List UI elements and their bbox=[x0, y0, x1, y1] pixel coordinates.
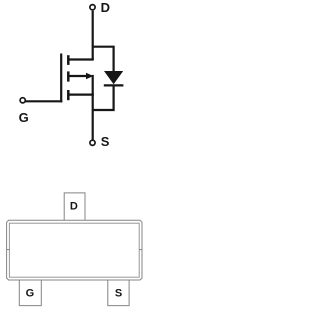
svg-text:S: S bbox=[115, 287, 122, 299]
svg-text:D: D bbox=[70, 201, 78, 213]
package body outer outline bbox=[7, 220, 142, 280]
svg-text:S: S bbox=[101, 134, 110, 149]
pin box G bbox=[19, 280, 41, 306]
package parting tick right bbox=[139, 249, 142, 251]
wire source vertical bbox=[92, 75, 94, 140]
body diode D1 bbox=[104, 71, 124, 85]
svg-text:G: G bbox=[26, 288, 35, 300]
package body inner outline bbox=[9, 223, 139, 277]
package parting tick left bbox=[7, 249, 10, 251]
wire drain stub bbox=[68, 58, 94, 60]
transistor Q1 body stub with arrow bbox=[68, 73, 93, 80]
wire drain vertical bbox=[92, 11, 94, 60]
transistor Q1 channel middle segment bbox=[67, 71, 70, 81]
wire diode branch bottom bbox=[93, 85, 114, 110]
transistor Q1 channel top segment bbox=[67, 55, 70, 65]
svg-text:D: D bbox=[101, 0, 110, 15]
terminal G bbox=[20, 98, 25, 103]
transistor Q1 gate line bbox=[60, 54, 62, 103]
wire source stub bbox=[68, 93, 94, 95]
transistor Q1 channel bottom segment bbox=[67, 90, 70, 100]
wire gate bbox=[26, 100, 63, 102]
terminal S bbox=[90, 140, 95, 145]
svg-text:G: G bbox=[19, 110, 29, 125]
pin box S bbox=[108, 280, 129, 306]
pin box D bbox=[64, 193, 85, 220]
terminal D bbox=[90, 5, 95, 10]
wire diode branch top bbox=[93, 47, 114, 72]
